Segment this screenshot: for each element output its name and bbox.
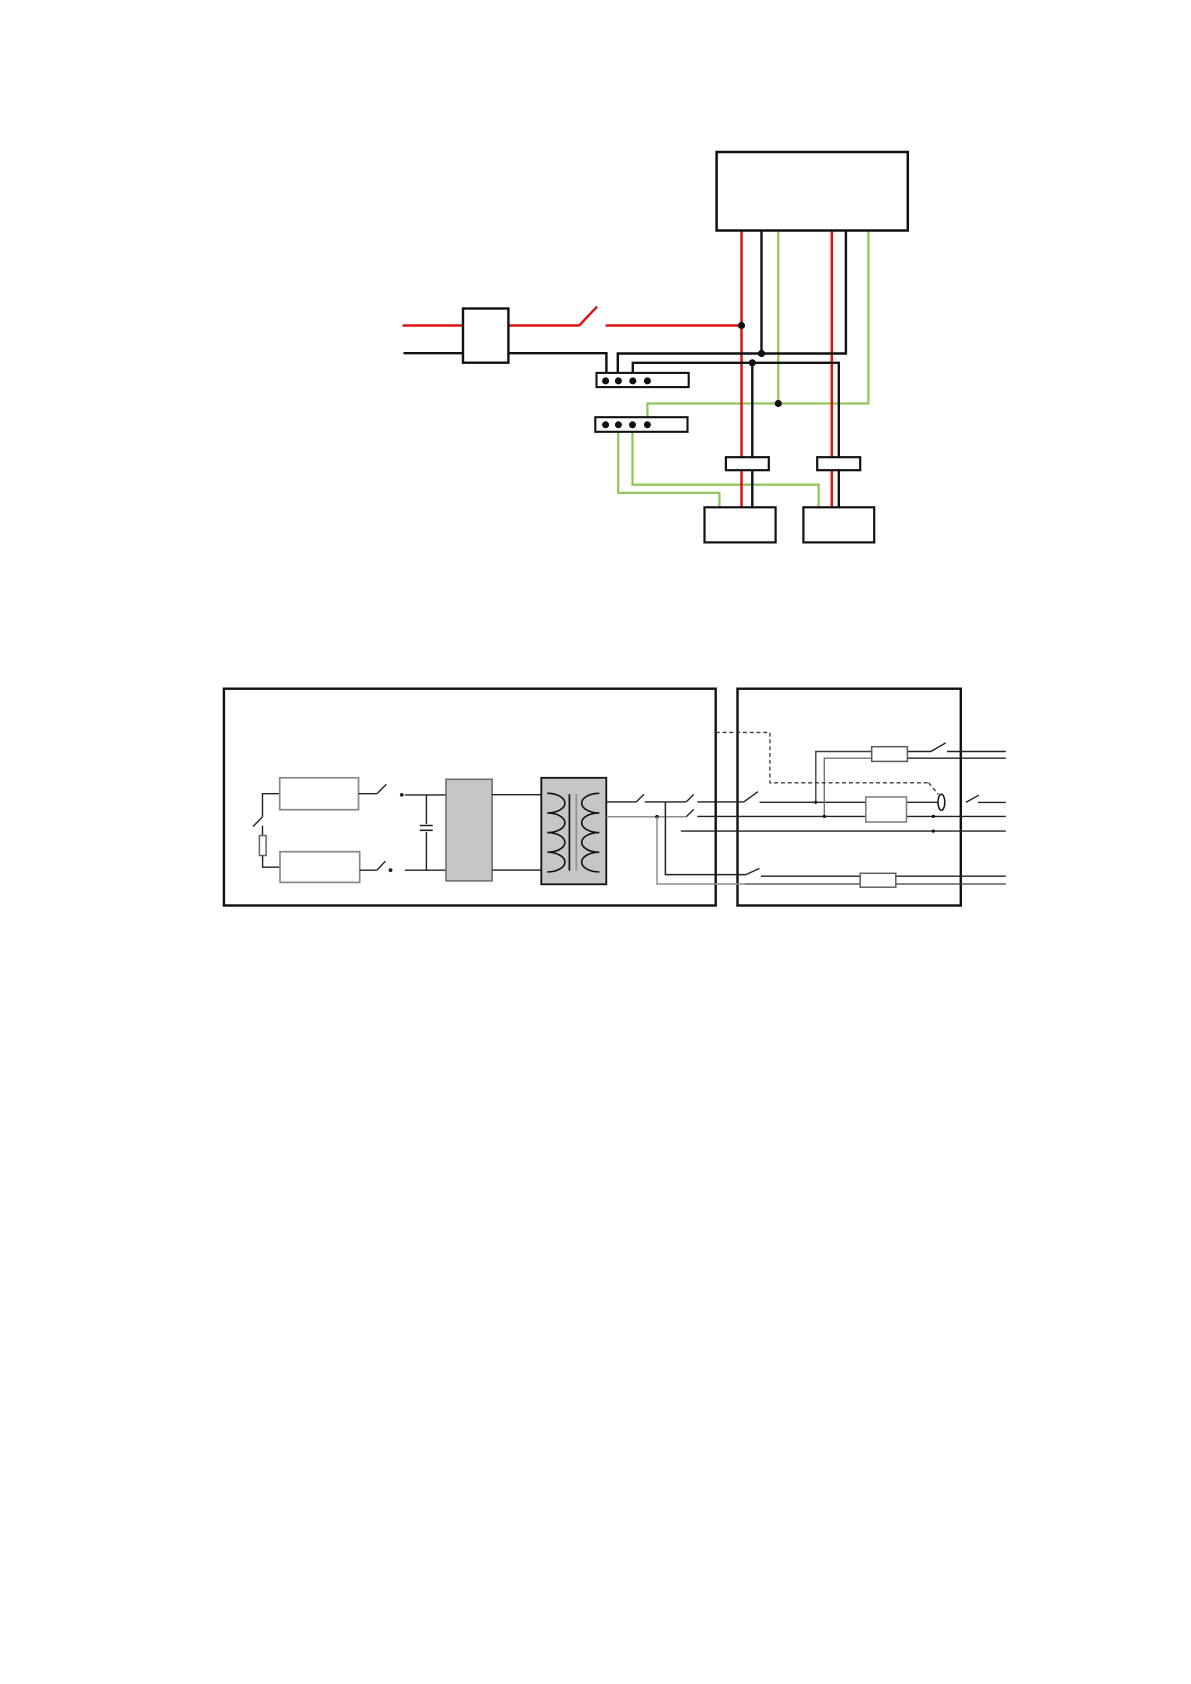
wire U1 to transformer top xyxy=(492,794,541,796)
TB1 pin 4 xyxy=(644,377,651,384)
wire W4 branch from W1 down and right to switch S10 xyxy=(665,802,746,875)
node black junction line3 xyxy=(749,359,756,366)
switch S3 blade xyxy=(377,784,387,794)
terminal strip TB1 xyxy=(597,373,689,387)
wire black line3 from TB1 pin 3 to right fuse and right load xyxy=(633,363,839,508)
enclosure left box xyxy=(224,689,716,906)
wire W5 output line xyxy=(745,883,1006,885)
wire red from switch to junction node xyxy=(606,324,742,326)
switch S7 blade xyxy=(744,792,758,802)
terminal strip TB2 xyxy=(595,417,687,432)
wire S4 to converter xyxy=(405,869,446,871)
transformer T1 box xyxy=(541,778,606,885)
TB1 pin 1 xyxy=(602,377,609,384)
wire R2 lower feed-through to output xyxy=(872,757,1006,759)
wire battery B1 to switch S3 xyxy=(359,793,377,795)
wire switch S2 to resistor R1 xyxy=(262,826,264,836)
switch S5 blade xyxy=(636,794,644,802)
wire red vertical left from control unit to left load xyxy=(740,231,743,508)
control unit box xyxy=(717,152,908,231)
TB1 pin 2 xyxy=(615,377,622,384)
TB2 pin 3 xyxy=(629,421,636,428)
switch S1 blade (red) xyxy=(579,307,597,326)
converter block U1 xyxy=(446,779,492,881)
wire black vertical from control unit to line2 junction xyxy=(760,231,762,354)
node L inner tee dot xyxy=(823,815,826,818)
wire W3 output line xyxy=(681,830,1006,832)
wire resistor R1 to battery B2 xyxy=(263,856,280,868)
node W2 output dot xyxy=(932,815,935,818)
wire W4 S10 to output through R4 xyxy=(761,875,1006,877)
transformer T1 core line black xyxy=(568,794,570,871)
TB2 pin 4 xyxy=(644,421,651,428)
transformer T1 core line gray xyxy=(575,794,577,871)
switch S4 blade xyxy=(377,861,386,870)
wire green from control unit right down and across to TB2 pin 4 xyxy=(647,231,868,425)
transformer T1 secondary winding xyxy=(582,793,600,872)
fuse F3 (right) xyxy=(817,457,860,470)
resistor R4 (bottom) xyxy=(860,873,896,887)
wire U1 to transformer bottom xyxy=(492,869,541,871)
TB1 pin 3 xyxy=(629,377,636,384)
node S4 contact dot xyxy=(389,868,393,872)
wire W1 S6 to switch S7 xyxy=(697,801,744,803)
wire W2 gray transformer out to switch S9 xyxy=(606,816,686,818)
indicator lamp (ellipse) xyxy=(938,794,945,810)
node green junction xyxy=(775,400,782,407)
node L outer tee dot xyxy=(814,801,817,804)
wire W1 after lamp blade S8 outside enclosure xyxy=(966,795,979,802)
left load box xyxy=(705,507,776,542)
capacitor C1 bottom lead xyxy=(425,832,427,870)
wire green vertical from control unit to green junction xyxy=(777,231,779,404)
TB2 pin 2 xyxy=(615,421,622,428)
switch S10 blade xyxy=(746,868,759,874)
wire S11 to output xyxy=(947,751,1006,753)
node W3 output dot xyxy=(932,830,935,833)
node black junction line2 xyxy=(758,350,765,357)
fuse F2 (left) xyxy=(726,457,769,470)
TB2 pin 1 xyxy=(602,421,609,428)
enclosure right box xyxy=(738,689,961,906)
node red junction xyxy=(738,322,745,329)
dashed control line from enclosure left to lamp xyxy=(716,732,929,782)
node W2 junction to W5 xyxy=(655,815,659,819)
switch S6 blade xyxy=(686,794,694,802)
battery B2 box xyxy=(280,852,360,883)
right load box xyxy=(803,507,874,542)
wire W1 S5 to switch S6 xyxy=(645,801,686,803)
resistor R2 (top) xyxy=(872,747,908,762)
wire R2 to switch S11 xyxy=(872,751,931,753)
wire L outer from W1 up to resistor R2 xyxy=(816,752,872,803)
wire W1 transformer out to switch S5 xyxy=(606,801,636,803)
fuse block box xyxy=(463,309,508,363)
wire red from fuse block to switch xyxy=(508,324,579,326)
wire battery B2 to switch S4 xyxy=(360,869,377,871)
wire red vertical right from control unit to right load xyxy=(831,231,834,508)
battery B1 box xyxy=(280,778,359,810)
switch S2 blade xyxy=(253,817,263,827)
wire L inner from W2 up to resistor R2 xyxy=(824,758,871,816)
node S3 contact dot xyxy=(400,793,404,797)
resistor R3 (middle) xyxy=(866,797,907,822)
wire S3 to converter xyxy=(405,794,446,796)
wire green from TB2 pin 3 to right load xyxy=(633,425,819,508)
dashed diagonal to lamp xyxy=(929,783,939,795)
wire W1 S7 to lamp xyxy=(760,801,938,803)
transformer T1 primary winding xyxy=(547,793,565,872)
wire W1 output segment xyxy=(978,801,1006,803)
wire W5 gray branch from W2 down xyxy=(657,817,745,884)
wire red feed from left to fuse block xyxy=(403,324,463,326)
switch S11 blade xyxy=(931,743,946,752)
wire W2 S9 onward to output xyxy=(697,815,1006,817)
wire black feed from left to fuse block xyxy=(404,352,464,354)
wire from battery B1 left down to switch S2 xyxy=(263,794,280,817)
wire green from TB2 pin 2 to left load xyxy=(618,425,719,508)
capacitor C1 plates xyxy=(420,826,433,831)
capacitor C1 top lead xyxy=(425,795,427,824)
wire black line2 with corner from control unit down to terminal strip TB1 pin 2 xyxy=(618,231,846,381)
resistor R1 (vertical) xyxy=(259,836,266,856)
wire black vertical junction line3 down through left fuse to left load xyxy=(751,363,753,508)
wire black from fuse block corner down to TB1 pin 1 xyxy=(508,353,606,381)
switch S9 blade xyxy=(686,809,694,816)
